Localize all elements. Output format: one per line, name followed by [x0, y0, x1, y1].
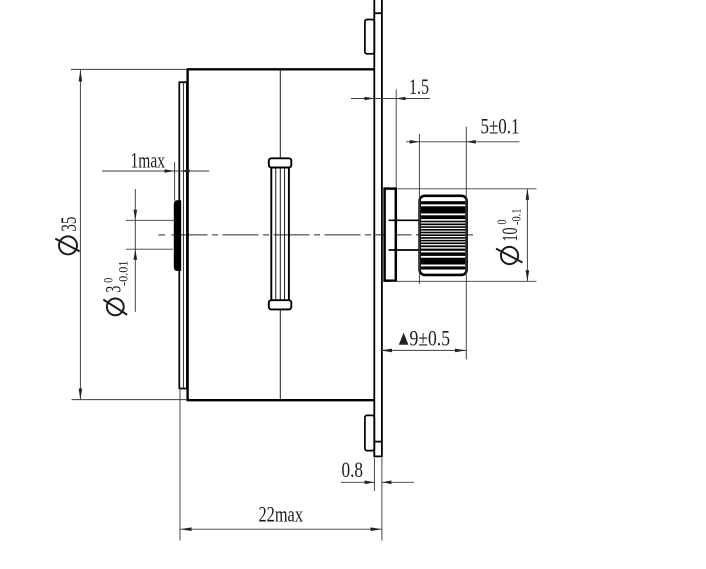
- seam capsule top cap: [269, 158, 292, 167]
- seam capsule body: [271, 167, 289, 301]
- svg-text:22max: 22max: [259, 502, 304, 527]
- svg-text:10: 10: [497, 228, 522, 242]
- dimension 5±0.1: [406, 127, 520, 360]
- dimension 9±0.5: [381, 349, 467, 351]
- centerline: [158, 234, 477, 236]
- rear shaft boss (black bump): [174, 200, 181, 271]
- flange ear top: [365, 20, 374, 54]
- dimension 22max: [180, 387, 382, 541]
- front pilot boss: [385, 189, 396, 281]
- dimension Phi35: [71, 69, 187, 400]
- dimension 1max: [102, 162, 209, 201]
- pinion gear: [420, 196, 467, 275]
- can seam line: [279, 71, 281, 400]
- svg-text:0: 0: [101, 278, 116, 283]
- dimension Phi10: [390, 189, 537, 281]
- flange ear bottom: [365, 415, 374, 450]
- rear end cap: [179, 82, 187, 388]
- svg-text:9±0.5: 9±0.5: [410, 326, 451, 351]
- mounting flange plate: [374, 0, 383, 456]
- svg-text:-0.01: -0.01: [116, 261, 131, 287]
- dimension Phi3: [126, 189, 175, 312]
- shaft: [389, 220, 420, 250]
- svg-text:-0.1: -0.1: [509, 209, 524, 226]
- seam capsule bottom cap: [269, 300, 292, 309]
- motor body (can): [188, 68, 375, 401]
- svg-text:0.8: 0.8: [342, 457, 364, 482]
- svg-text:35: 35: [56, 217, 81, 232]
- rear cap inner line: [182, 83, 184, 388]
- svg-text:0: 0: [494, 220, 509, 225]
- dimension 0.8: [341, 458, 414, 541]
- dimension 1.5: [351, 90, 430, 189]
- svg-text:1.5: 1.5: [409, 74, 429, 99]
- svg-text:1max: 1max: [131, 148, 166, 173]
- svg-text:5±0.1: 5±0.1: [481, 114, 520, 139]
